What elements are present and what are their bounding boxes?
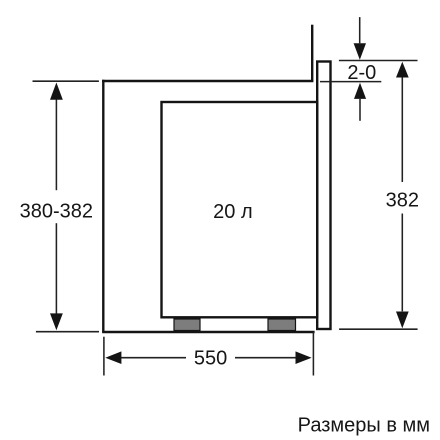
- svg-text:Размеры в мм: Размеры в мм: [298, 414, 430, 436]
- svg-text:382: 382: [386, 190, 419, 212]
- svg-text:2-0: 2-0: [347, 62, 376, 84]
- svg-text:380-382: 380-382: [20, 201, 93, 223]
- svg-text:550: 550: [194, 348, 227, 370]
- svg-text:20 л: 20 л: [213, 201, 252, 223]
